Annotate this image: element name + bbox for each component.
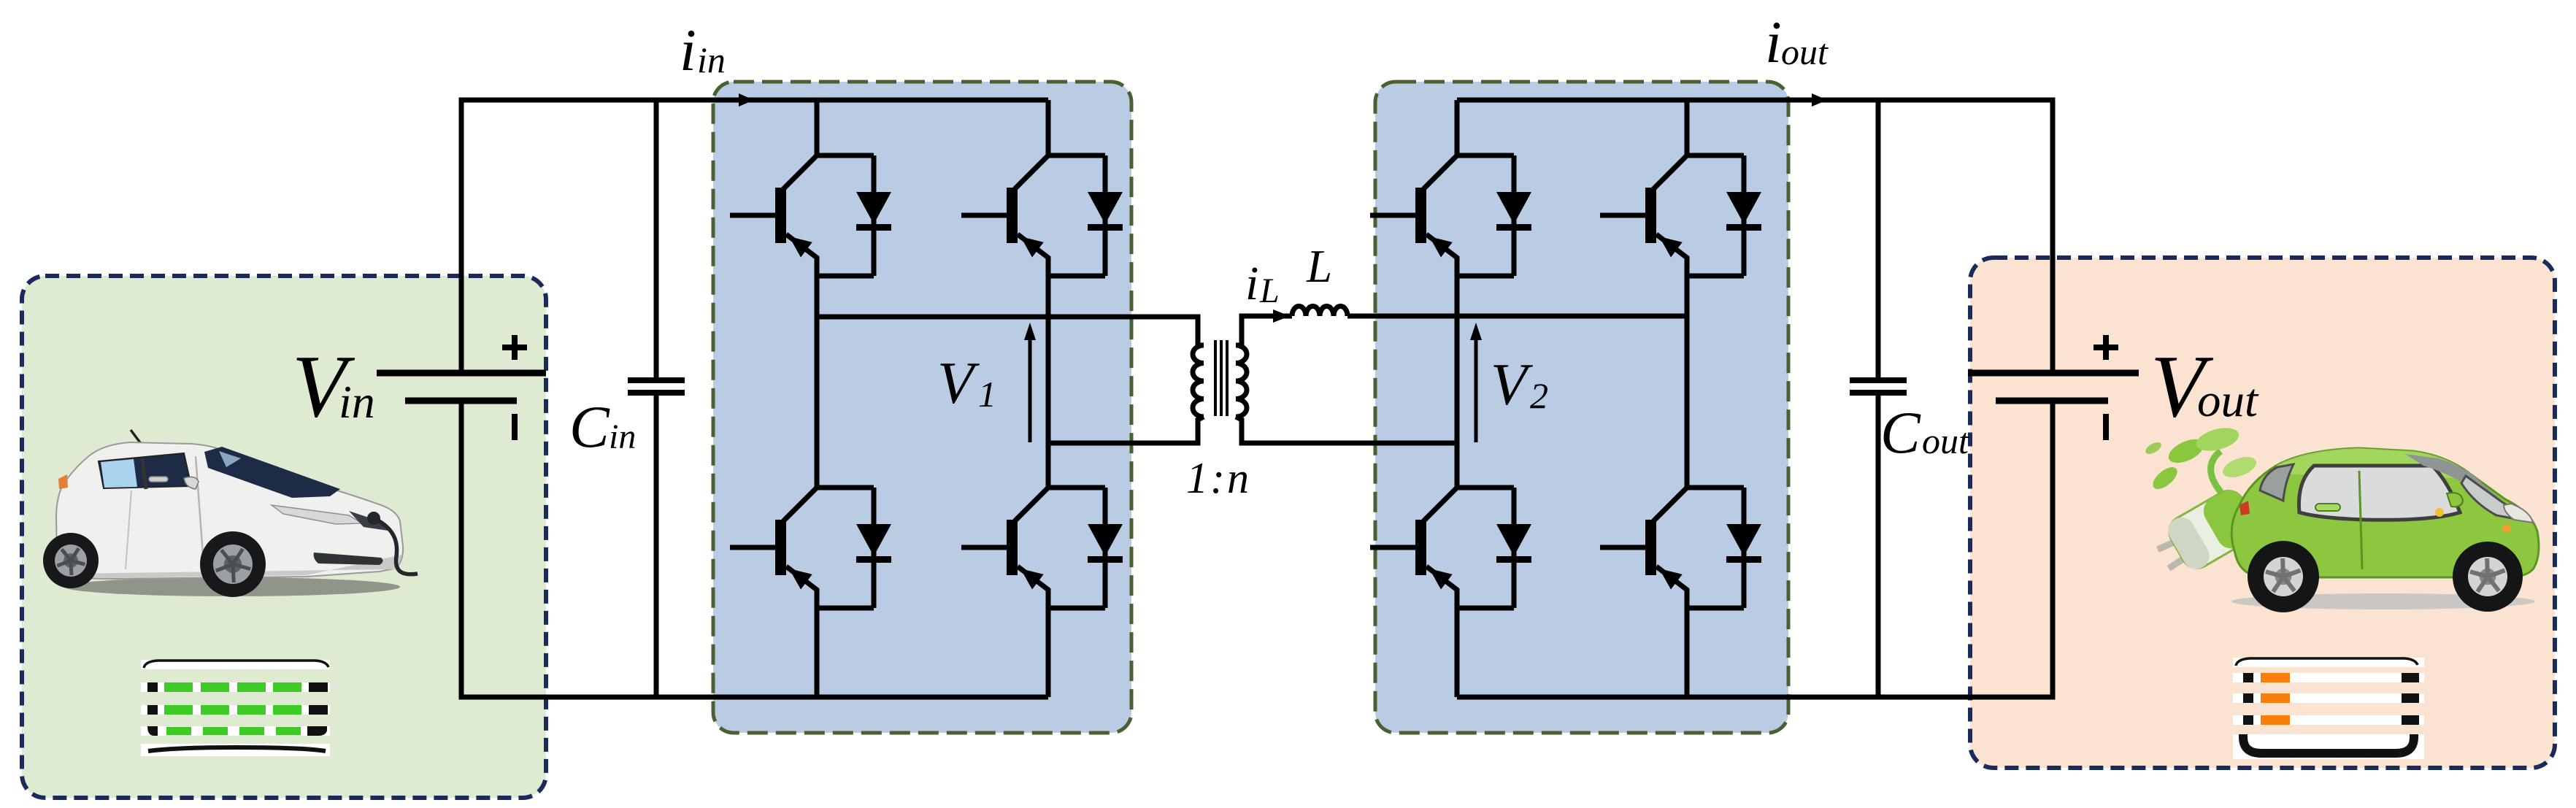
svg-text:i: i — [1765, 9, 1782, 75]
svg-text:out: out — [2197, 374, 2259, 427]
svg-text:1: 1 — [978, 374, 996, 415]
svg-text:L: L — [1306, 241, 1332, 292]
svg-text:1:n: 1:n — [1186, 454, 1251, 502]
svg-text:2: 2 — [1530, 375, 1548, 416]
svg-text:C: C — [569, 393, 610, 460]
svg-text:in: in — [697, 39, 726, 80]
svg-text:C: C — [1880, 399, 1921, 466]
svg-text:i: i — [1245, 257, 1258, 310]
svg-text:i: i — [680, 17, 696, 83]
svg-text:L: L — [1259, 272, 1280, 310]
svg-text:out: out — [1922, 420, 1969, 461]
svg-text:V: V — [937, 350, 980, 416]
svg-text:in: in — [609, 418, 636, 456]
svg-text:out: out — [1781, 31, 1829, 72]
svg-text:V: V — [1491, 351, 1533, 418]
svg-text:in: in — [339, 376, 375, 428]
